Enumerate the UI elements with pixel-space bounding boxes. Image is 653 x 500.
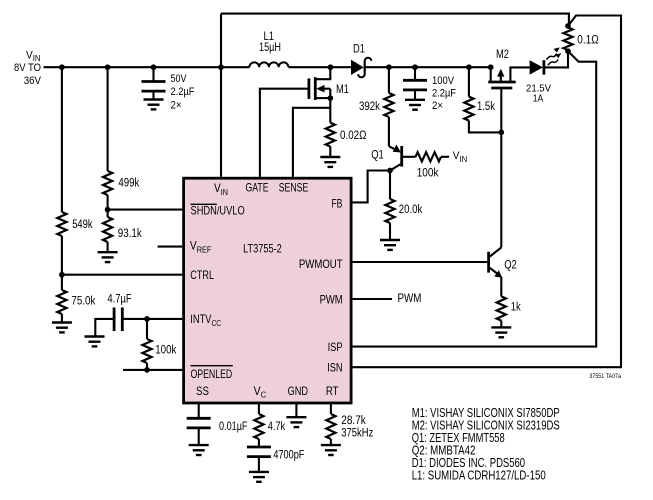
label 1k xyxy=(511,302,521,314)
node junction 0.1ohm top xyxy=(565,23,571,29)
wire LED cathode xyxy=(544,51,568,67)
node junction 549k top xyxy=(59,64,65,70)
svg-text:2.2µF: 2.2µF xyxy=(171,86,195,98)
pin RT label xyxy=(326,384,339,398)
svg-text:8V TO: 8V TO xyxy=(14,62,41,74)
wire VIN pin vertical xyxy=(220,14,222,177)
svg-text:75.0k: 75.0k xyxy=(71,296,95,308)
wire 4.7uF left to gnd xyxy=(95,319,114,337)
wire PWM stub xyxy=(352,298,392,300)
pin SS label xyxy=(196,384,209,398)
resistor 1.5k xyxy=(464,97,473,121)
transistor M1 channel bar xyxy=(314,77,317,100)
label 20.0k xyxy=(399,204,423,216)
label 1.5k xyxy=(477,101,495,113)
pin OPENLED label xyxy=(191,366,233,381)
node junction C2 top xyxy=(412,64,418,70)
svg-text:M2: M2 xyxy=(496,49,509,61)
label 28.7k xyxy=(341,415,373,439)
label 549k xyxy=(72,219,93,231)
node VIN input label xyxy=(14,49,42,87)
pin PWM label xyxy=(320,293,343,307)
op-amp U1 LT3755-2 body xyxy=(184,178,352,403)
wire 20.0k to gnd xyxy=(389,223,391,240)
ground 93.1k xyxy=(98,252,118,262)
svg-text:1.5k: 1.5k xyxy=(477,101,495,113)
node PWM label xyxy=(398,291,422,305)
svg-text:GATE: GATE xyxy=(246,181,269,195)
wire M2 gate xyxy=(500,88,502,132)
resistor 4.7k xyxy=(254,414,263,439)
wire M1 source xyxy=(315,89,330,123)
transistor M2 body arrow xyxy=(497,69,504,82)
node junction C1 top xyxy=(151,64,157,70)
label M1 xyxy=(336,84,349,96)
svg-text:36V: 36V xyxy=(24,75,42,87)
LED D2 cathode bar xyxy=(543,60,546,74)
wire SHDN/UVLO xyxy=(108,209,183,211)
resistor 0.1ohm xyxy=(563,28,572,51)
pin FB label xyxy=(331,196,342,210)
resistor 100k Q1 base xyxy=(416,152,441,161)
node VIN label Q1 xyxy=(453,150,468,164)
ground GND pin xyxy=(286,417,306,427)
label L1 xyxy=(259,31,281,54)
wire CTRL xyxy=(62,274,182,276)
ground 20.0k xyxy=(380,240,400,250)
node junction VIN pin rail xyxy=(218,64,224,70)
ground 1k xyxy=(491,327,511,337)
svg-text:FB: FB xyxy=(331,196,342,210)
pin CTRL label xyxy=(190,268,214,282)
svg-text:2×: 2× xyxy=(432,100,443,112)
wire 1k to gnd xyxy=(500,321,502,328)
wire 1.5k lead xyxy=(468,67,470,96)
label 392k xyxy=(359,101,380,113)
svg-text:1A: 1A xyxy=(533,92,544,104)
wire 93.1k to gnd xyxy=(107,242,109,252)
transistor Q1 emitter xyxy=(389,145,401,153)
svg-text:0.02Ω: 0.02Ω xyxy=(340,130,367,142)
svg-text:OPENLED: OPENLED xyxy=(191,367,233,381)
pin GATE label xyxy=(246,181,269,195)
transistor Q2 emitter xyxy=(490,268,503,278)
label 100k Q1 xyxy=(417,167,439,179)
svg-text:LT3755-2: LT3755-2 xyxy=(243,242,282,256)
wire OPENLED xyxy=(123,369,182,371)
label 0.01uF xyxy=(219,421,248,433)
svg-text:28.7k: 28.7k xyxy=(341,415,366,427)
resistor 549k xyxy=(57,212,66,236)
ground 4700pF xyxy=(249,472,269,482)
ground 0.02ohm xyxy=(320,157,340,167)
diode D1 cathode curl xyxy=(358,58,371,78)
label C2 values xyxy=(432,75,456,112)
label 75.0k xyxy=(71,296,95,308)
transistor M1 body arrow xyxy=(316,85,330,93)
resistor 28.7k xyxy=(326,414,335,439)
label 4.7k xyxy=(268,421,286,433)
svg-text:93.1k: 93.1k xyxy=(118,228,142,240)
pin VC label xyxy=(254,384,267,400)
wire C2 lead xyxy=(414,67,416,80)
LED D2 light arrows xyxy=(546,47,561,65)
pin SENSE label xyxy=(279,181,309,195)
wire M1 gate to GATE pin xyxy=(260,89,309,177)
svg-text:1k: 1k xyxy=(511,302,521,314)
svg-text:4.7µF: 4.7µF xyxy=(107,293,131,305)
ground SS cap xyxy=(189,445,209,455)
ground C1 xyxy=(144,100,164,110)
wire RT lead xyxy=(330,403,332,414)
node junction M2 source xyxy=(488,64,494,70)
label parts list xyxy=(412,405,560,483)
svg-text:L1: L1 xyxy=(264,31,275,43)
svg-text:M1: M1 xyxy=(336,84,349,96)
node junction CTRL xyxy=(59,272,65,278)
svg-text:ISN: ISN xyxy=(327,361,342,375)
wire VC lead xyxy=(258,403,260,414)
wire 4.7k to 4700pF xyxy=(258,439,260,447)
label LED values xyxy=(526,83,551,105)
wire 549k to CTRL node xyxy=(61,236,63,275)
wire 549k top lead xyxy=(61,67,63,212)
pin PWMOUT label xyxy=(299,257,343,271)
transistor M2 channel bar xyxy=(488,81,515,84)
wire Q1 base xyxy=(402,156,416,158)
node junction 1.5k top xyxy=(466,64,472,70)
label 93.1k xyxy=(118,228,142,240)
wire top rail xyxy=(221,14,569,26)
node junction 499k top xyxy=(105,64,111,70)
capacitor C2 2.2uF 100V xyxy=(403,80,427,100)
wire 75.0k to gnd xyxy=(61,314,63,323)
wire M1 drain xyxy=(315,67,330,79)
transistor Q1 collector xyxy=(390,164,402,171)
svg-text:100V: 100V xyxy=(432,75,455,87)
wire M2 gate to Q2 collector xyxy=(500,132,502,247)
label Q2 xyxy=(504,260,517,272)
ground 4.7uF xyxy=(85,337,105,347)
resistor 392k xyxy=(384,93,393,117)
label 4700pF xyxy=(273,450,304,462)
node junction INTVCC 100k xyxy=(144,316,150,322)
wire 392k lead xyxy=(388,67,390,93)
svg-text:100k: 100k xyxy=(155,345,176,357)
wire ISN loop xyxy=(352,16,621,368)
svg-text:37551 TA07a: 37551 TA07a xyxy=(589,373,621,380)
svg-text:4.7k: 4.7k xyxy=(268,421,286,433)
node junction M2 gate 1.5k xyxy=(498,130,504,136)
svg-text:20.0k: 20.0k xyxy=(399,204,423,216)
wire ISP loop xyxy=(352,51,596,346)
resistor 1k xyxy=(497,296,506,320)
svg-text:RT: RT xyxy=(326,384,339,398)
pin ISN label xyxy=(327,361,342,375)
resistor 20.0k xyxy=(385,171,394,224)
wire 28.7k to gnd xyxy=(330,439,332,445)
svg-text:392k: 392k xyxy=(359,101,380,113)
inductor L1 15uH xyxy=(249,62,288,67)
pin VIN label xyxy=(214,181,228,197)
label C1 values xyxy=(171,73,195,112)
wire D1 to M2 xyxy=(366,66,491,68)
node junction M1 drain xyxy=(328,64,334,70)
resistor 93.1k xyxy=(103,210,112,242)
wire 392k to Q1 emitter xyxy=(388,117,390,146)
label 0.1ohm xyxy=(577,35,599,47)
node junction SHDN xyxy=(105,207,111,213)
label figure number xyxy=(589,373,621,380)
ground RT resistor xyxy=(321,445,341,455)
svg-text:Q2: Q2 xyxy=(504,260,517,272)
capacitor 4700pF xyxy=(247,447,271,472)
svg-text:100k: 100k xyxy=(417,167,439,179)
pin VREF label xyxy=(190,239,212,255)
capacitor 4.7uF xyxy=(114,308,122,332)
svg-text:499k: 499k xyxy=(118,177,139,189)
wire 0.02ohm to gnd xyxy=(329,147,331,158)
pin INTVCC label xyxy=(190,312,221,328)
transistor Q2 base bar xyxy=(487,252,490,273)
wire 499k top lead xyxy=(107,67,109,171)
svg-text:L1: SUMIDA CDRH127/LD-150: L1: SUMIDA CDRH127/LD-150 xyxy=(412,468,546,483)
svg-text:SHDN/UVLO: SHDN/UVLO xyxy=(191,204,245,218)
transistor M1 gate bar xyxy=(307,78,310,99)
wire C1 lead xyxy=(152,67,154,81)
wire 100k to OPENLED xyxy=(146,363,148,370)
ground C2 xyxy=(405,100,425,110)
svg-text:15µH: 15µH xyxy=(259,42,281,54)
pin ISP label xyxy=(328,340,343,354)
wire VREF stub xyxy=(158,246,183,248)
label 0.02ohm xyxy=(340,130,367,142)
svg-text:ISP: ISP xyxy=(328,340,343,354)
svg-text:375kHz: 375kHz xyxy=(341,427,373,439)
capacitor C1 2.2uF 50V xyxy=(142,82,166,100)
svg-text:Q1: Q1 xyxy=(371,150,384,162)
svg-text:549k: 549k xyxy=(72,219,93,231)
resistor 75.0k xyxy=(57,275,66,314)
wire M2 drain xyxy=(510,67,529,82)
transistor Q1 base bar xyxy=(400,146,403,167)
wire INTVCC xyxy=(122,318,182,320)
wire SS lead xyxy=(198,403,200,418)
node junction D1 cathode xyxy=(386,64,392,70)
wire L1 to D1 xyxy=(288,66,351,68)
capacitor 0.01uF xyxy=(187,418,211,445)
node junction OPENLED 100k xyxy=(144,367,150,373)
label U1 part number xyxy=(243,242,282,256)
wire GND lead xyxy=(295,403,297,417)
svg-text:PWM: PWM xyxy=(398,291,422,305)
wire 499k to SHDN node xyxy=(107,195,109,210)
wire SENSE to M1 source xyxy=(293,108,330,177)
wire VIN rail left xyxy=(44,66,250,68)
LED D2 triangle xyxy=(530,60,543,74)
node junction M1 source xyxy=(327,95,333,101)
svg-text:2×: 2× xyxy=(171,99,182,111)
wire 100k to VIN label xyxy=(441,156,449,158)
wire FB to Q1 collector xyxy=(352,171,390,203)
svg-text:GND: GND xyxy=(288,384,308,398)
node junction 0.1ohm bottom xyxy=(565,48,571,54)
svg-text:SS: SS xyxy=(196,384,209,398)
svg-text:4700pF: 4700pF xyxy=(273,450,304,462)
label 100k intvcc xyxy=(155,345,176,357)
diode D1 anode triangle xyxy=(351,60,364,75)
svg-text:SENSE: SENSE xyxy=(279,181,309,195)
svg-text:VIN: VIN xyxy=(453,150,468,164)
svg-text:CTRL: CTRL xyxy=(190,268,214,282)
pin SHDN/UVLO label xyxy=(191,204,245,218)
svg-text:PWM: PWM xyxy=(320,293,343,307)
transistor M2 gate bar xyxy=(491,87,512,90)
wire M2 source xyxy=(490,67,492,82)
svg-text:D1: D1 xyxy=(353,44,365,56)
svg-text:2.2µF: 2.2µF xyxy=(432,87,456,99)
label D1 xyxy=(353,44,365,56)
svg-text:0.01µF: 0.01µF xyxy=(219,421,248,433)
node junction Q1 collector FB xyxy=(387,168,393,174)
resistor 100k intvcc xyxy=(142,319,151,363)
pin GND label xyxy=(288,384,308,398)
label Q1 xyxy=(371,150,384,162)
svg-text:0.1Ω: 0.1Ω xyxy=(577,35,599,47)
transistor Q2 collector xyxy=(490,248,502,257)
wire PWMOUT to Q2 base xyxy=(352,261,487,263)
wire 1.5k to M2 gate node xyxy=(469,121,501,133)
label 4.7uF xyxy=(107,293,131,305)
svg-text:50V: 50V xyxy=(171,73,188,85)
resistor 499k xyxy=(103,171,112,195)
label 499k xyxy=(118,177,139,189)
wire Q2 emitter to 1k xyxy=(500,277,502,296)
label M2 xyxy=(496,49,509,61)
ground 75.0k xyxy=(52,323,72,333)
resistor 0.02ohm xyxy=(326,123,335,147)
svg-text:PWMOUT: PWMOUT xyxy=(299,257,343,271)
